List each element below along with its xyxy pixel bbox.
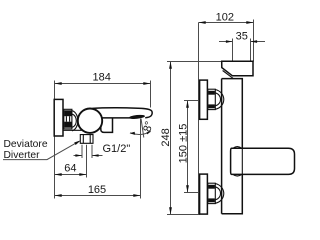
svg-text:64: 64	[64, 163, 76, 175]
svg-text:G1/2": G1/2"	[103, 143, 131, 155]
svg-text:150 ±15: 150 ±15	[177, 124, 189, 164]
svg-text:165: 165	[88, 184, 106, 196]
svg-text:Deviatore: Deviatore	[4, 139, 48, 150]
svg-text:184: 184	[93, 72, 111, 84]
svg-text:102: 102	[216, 11, 234, 23]
svg-text:35: 35	[236, 31, 248, 43]
svg-text:248: 248	[160, 128, 172, 146]
